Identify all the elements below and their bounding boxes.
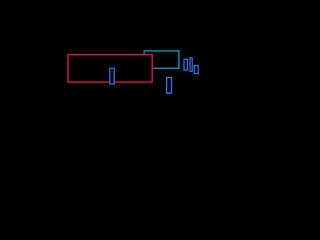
blue bar below blue panel (167, 78, 172, 94)
small bar 1 right (184, 59, 187, 70)
red box with opaque black fill (68, 55, 152, 83)
blue panel box (drawn first, partially occluded by red box) (144, 51, 179, 68)
small bar 2 right (190, 58, 192, 72)
blue bar inside red box (110, 68, 114, 84)
small bar 3 right (194, 66, 198, 74)
